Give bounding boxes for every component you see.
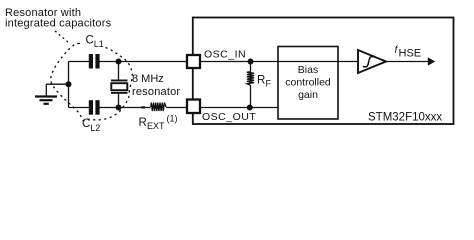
svg-text:STM32F10xxx: STM32F10xxx: [368, 112, 442, 124]
svg-text:resonator: resonator: [132, 86, 180, 98]
pin OSC_IN pad: [187, 55, 200, 68]
wire amplifier output: [386, 61, 429, 63]
node crystal top: [116, 59, 122, 65]
resistor REXT: [151, 103, 166, 111]
annotation text: Resonator with integrated capacitors: [5, 7, 112, 30]
svg-text:L1: L1: [94, 39, 104, 49]
resistor RF: [247, 62, 254, 108]
crystal 8 MHz resonator: [111, 62, 128, 108]
label CL2: [82, 118, 100, 133]
arrow fHSE output: [428, 57, 435, 65]
label 8 MHz resonator: [132, 73, 180, 98]
wire REXT to OSC_OUT pin: [166, 107, 187, 109]
svg-text:OSC_IN: OSC_IN: [204, 49, 246, 61]
wire top rail right: [99, 61, 187, 63]
dashed ellipse around resonator group: [51, 43, 132, 120]
svg-text:C: C: [82, 118, 90, 130]
wire top rail left: [69, 61, 90, 63]
svg-text:Bias: Bias: [298, 64, 318, 76]
capacitor CL1: [89, 54, 100, 69]
label fHSE: [395, 45, 422, 60]
wire bottom rail middle: [99, 107, 150, 109]
node RF bottom: [247, 105, 253, 111]
STM32F10xxx chip outline: [193, 18, 454, 125]
svg-text:8 MHz: 8 MHz: [132, 73, 164, 85]
svg-text:integrated capacitors: integrated capacitors: [5, 18, 112, 30]
svg-text:C: C: [86, 35, 94, 47]
svg-text:R: R: [139, 117, 147, 129]
svg-text:OSC_OUT: OSC_OUT: [202, 111, 256, 123]
ground: [35, 84, 57, 104]
svg-text:F: F: [266, 79, 272, 89]
capacitor CL2: [89, 100, 100, 115]
label CL1: [84, 34, 105, 49]
svg-text:R: R: [257, 75, 265, 87]
node RF top: [248, 59, 254, 65]
wire OSC_OUT to bias box: [200, 107, 278, 109]
label RF: [257, 75, 272, 89]
svg-text:HSE: HSE: [399, 48, 422, 60]
node crystal bottom: [116, 105, 122, 111]
svg-text:controlled: controlled: [285, 77, 331, 89]
bias controlled gain box: [278, 47, 338, 120]
svg-text:(1): (1): [167, 114, 178, 124]
label Bias controlled gain: [285, 64, 331, 101]
svg-text:gain: gain: [298, 89, 318, 101]
op-amp output buffer: [358, 50, 386, 73]
svg-text:L2: L2: [90, 123, 100, 133]
dotted leader line from annotation to ellipse: [55, 31, 68, 42]
label REXT(1): [139, 114, 178, 132]
pin OSC_OUT pad: [187, 100, 200, 114]
wire bottom rail left: [69, 107, 90, 109]
wire OSC_IN to amplifier: [200, 61, 358, 63]
wire ground to left vertical: [46, 83, 68, 85]
svg-text:EXT: EXT: [147, 121, 165, 131]
stray dash on OSC_OUT wire: [141, 106, 145, 108]
wire left vertical: [68, 62, 70, 108]
node ground junction: [66, 81, 72, 87]
